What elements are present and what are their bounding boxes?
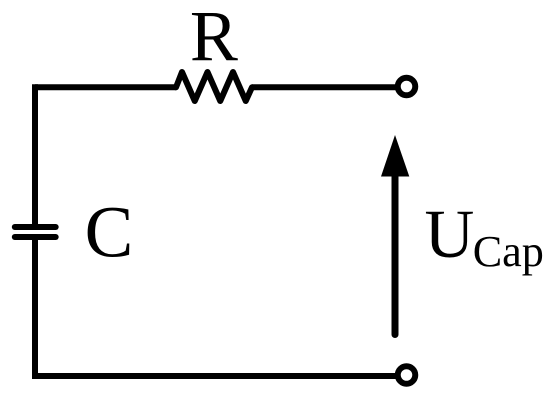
arrow Ucap head [381, 135, 409, 177]
wire: left vertical upper (corner to capacitor top plate) [32, 84, 38, 227]
svg-text:R: R [190, 0, 238, 76]
capacitor C top plate [15, 224, 56, 230]
wire: left vertical lower (capacitor bottom plate to bottom corner) [32, 237, 38, 379]
svg-text:U: U [425, 196, 475, 272]
wire: bottom horizontal (bottom corner to bottom terminal) [32, 373, 396, 379]
svg-text:C: C [85, 192, 134, 273]
wire: resistor to top terminal [252, 84, 396, 90]
terminal node (top right, open circle) [398, 78, 416, 96]
arrow Ucap shaft [392, 172, 399, 335]
terminal node (bottom right, open circle) [398, 366, 416, 384]
svg-text:Cap: Cap [473, 227, 544, 276]
wire: top horizontal (node A to resistor) [35, 84, 176, 90]
capacitor C bottom plate [15, 234, 56, 240]
resistor R [176, 72, 252, 101]
